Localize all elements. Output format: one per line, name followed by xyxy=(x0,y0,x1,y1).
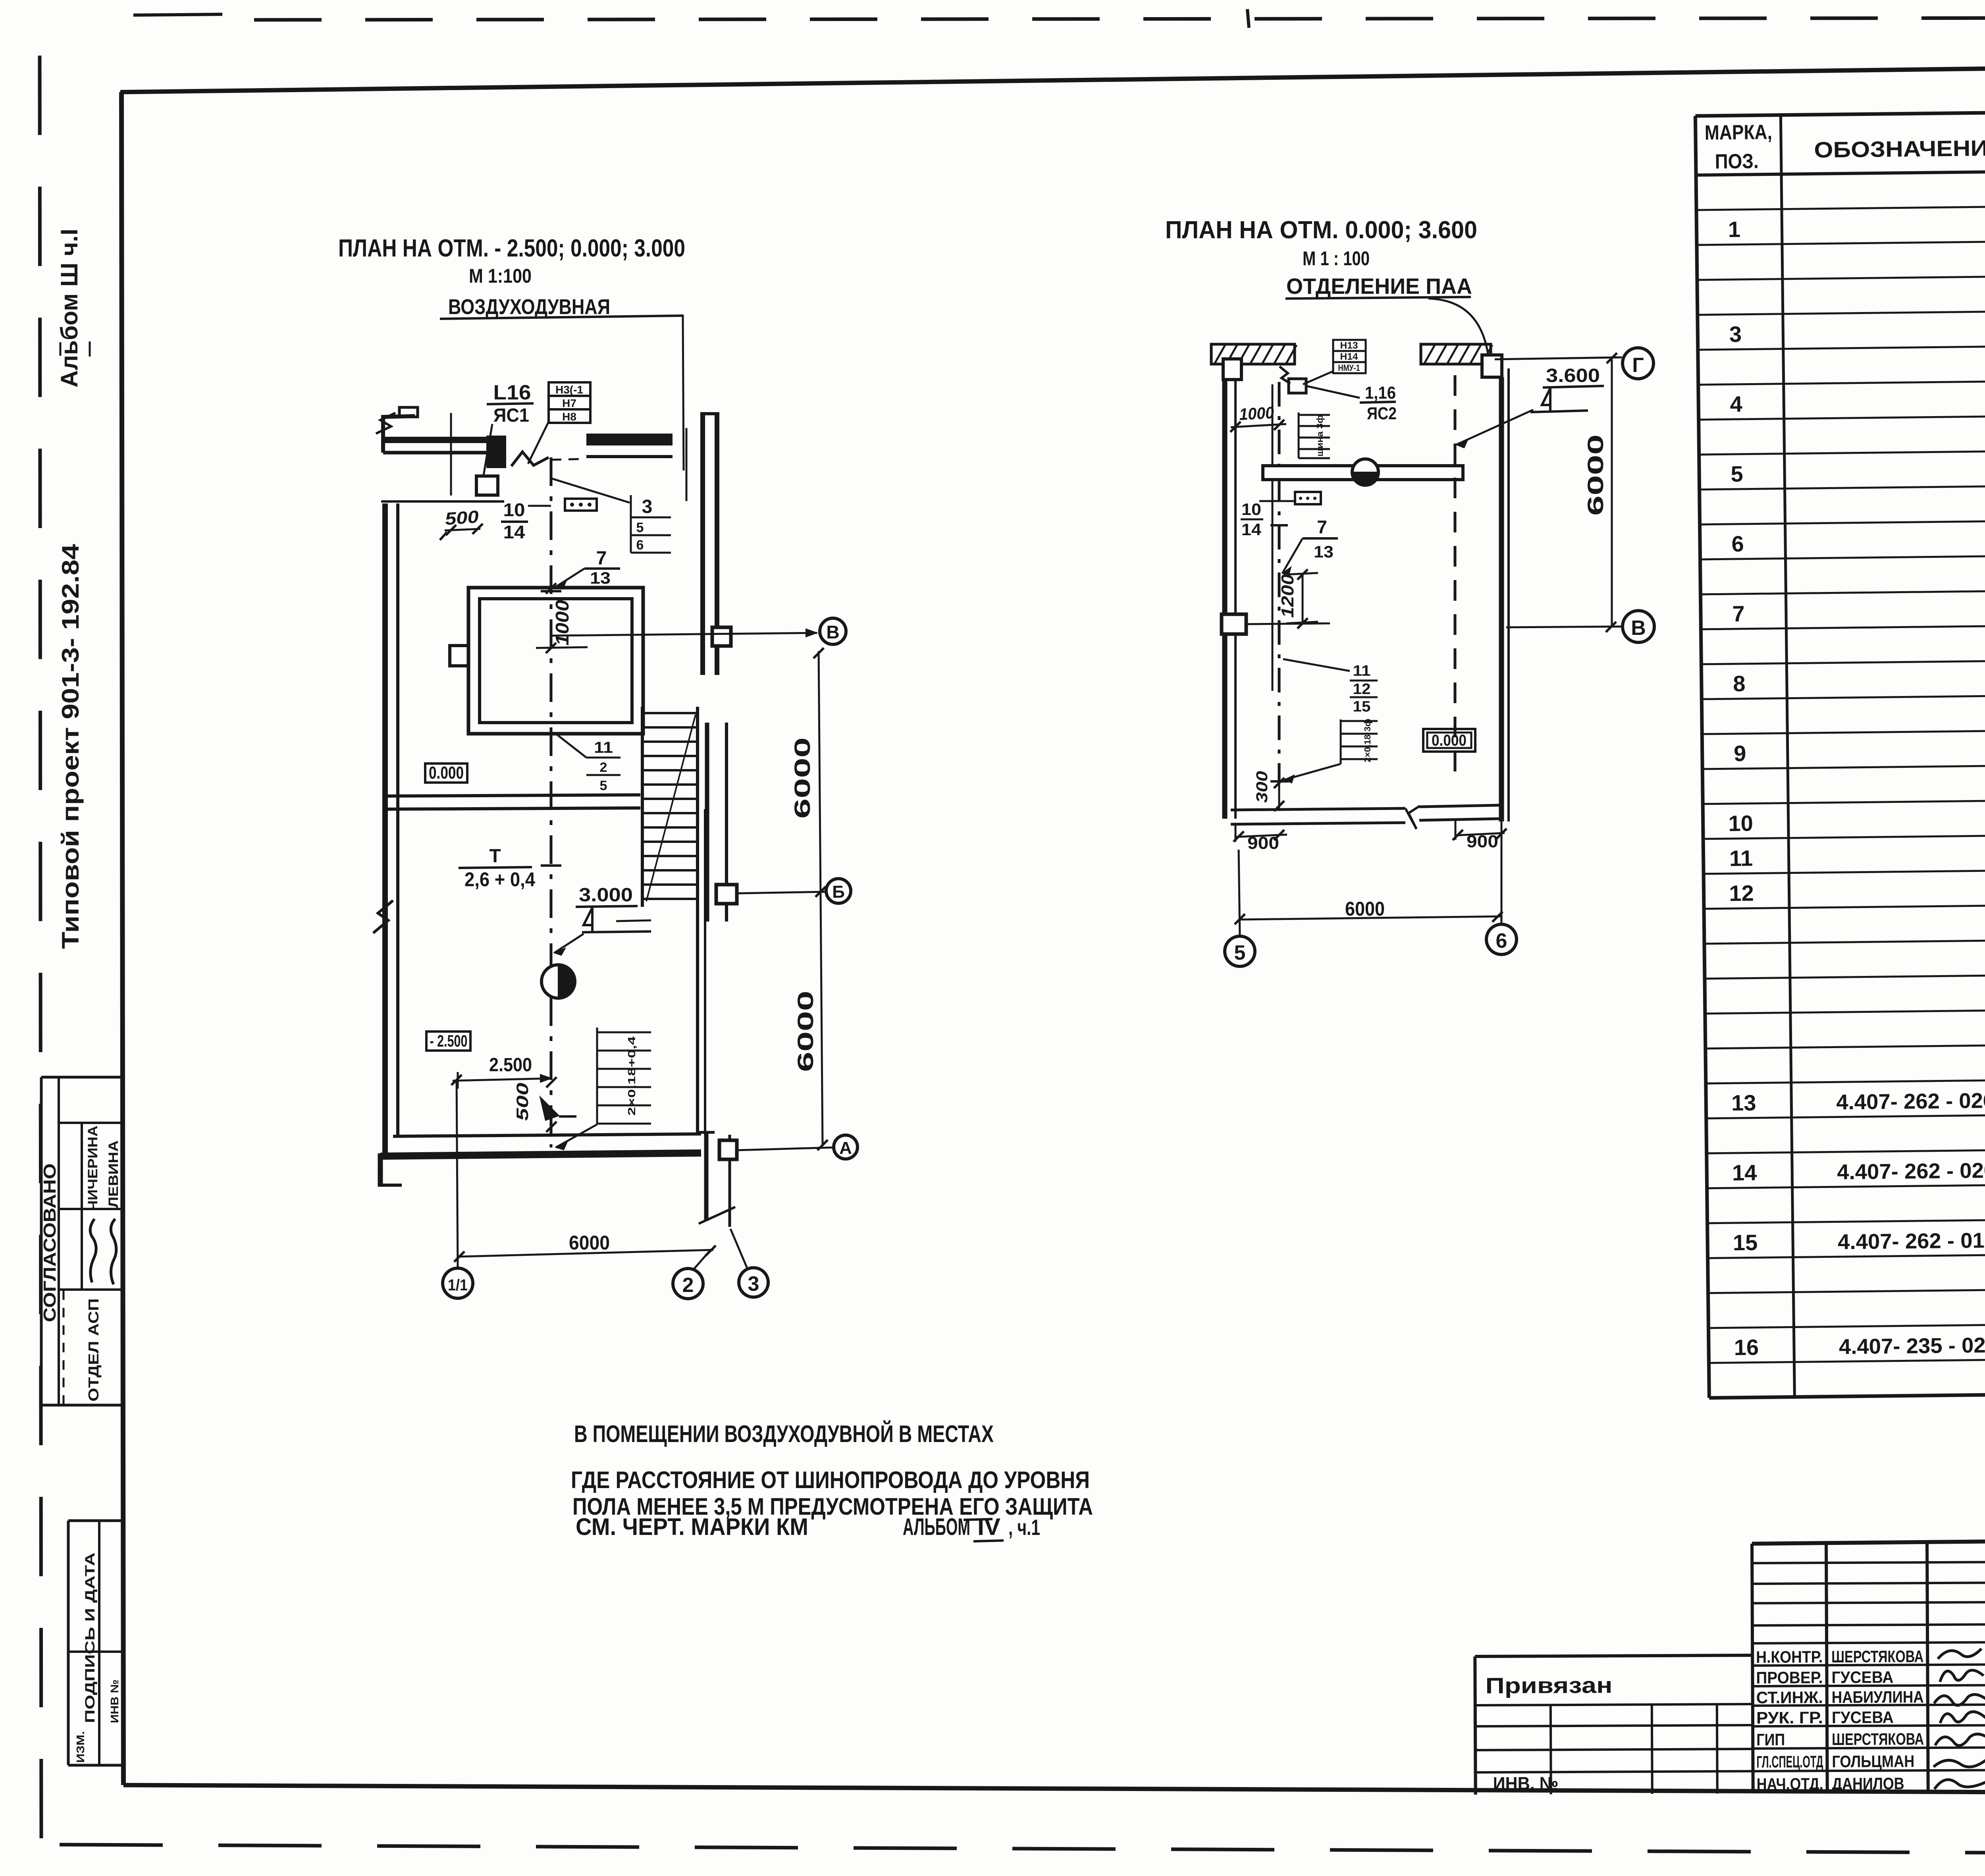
axis circle 6 xyxy=(1486,924,1517,954)
svg-text:12: 12 xyxy=(1353,681,1371,698)
svg-text:1200: 1200 xyxy=(1278,574,1297,618)
inner frame left xyxy=(121,92,123,1785)
wall top-right band xyxy=(586,434,673,445)
svg-text:ГУСЕВА: ГУСЕВА xyxy=(1832,1708,1894,1727)
axis circle A xyxy=(834,1135,858,1159)
lower ladder leader xyxy=(1284,764,1341,780)
svg-text:, ч.1: , ч.1 xyxy=(1008,1515,1040,1540)
outer dashed border left xyxy=(40,56,41,1846)
svg-text:3: 3 xyxy=(642,496,653,517)
corridor inner wall line xyxy=(381,500,504,503)
axis tick right of door xyxy=(686,428,688,501)
svg-text:ЯС1: ЯС1 xyxy=(493,405,529,426)
mid plan right wall xyxy=(1499,377,1504,821)
axis circle B xyxy=(826,879,851,903)
half circle symbol left plan xyxy=(542,965,575,998)
svg-text:Н14: Н14 xyxy=(1340,351,1359,362)
svg-text:6: 6 xyxy=(1496,929,1507,952)
svg-text:7: 7 xyxy=(596,548,607,569)
svg-text:0.000: 0.000 xyxy=(429,763,464,783)
three dot box xyxy=(565,499,597,511)
axis line A xyxy=(737,1147,834,1150)
svg-text:14: 14 xyxy=(503,522,525,542)
inner frame top xyxy=(120,62,1985,92)
svg-text:6: 6 xyxy=(1731,531,1744,556)
level mark leader xyxy=(554,934,584,953)
svg-text:3: 3 xyxy=(748,1273,759,1296)
axis circle 1-1 xyxy=(443,1268,473,1298)
interior wall xyxy=(387,795,640,796)
YaS2 leader xyxy=(1306,386,1360,398)
margin dash line xyxy=(63,1290,65,1406)
svg-text:10: 10 xyxy=(503,499,525,520)
svg-text:Н13: Н13 xyxy=(1340,340,1358,351)
svg-text:10: 10 xyxy=(1241,500,1261,519)
svg-text:11: 11 xyxy=(1729,846,1753,871)
svg-text:ПЛАН НА ОТМ. - 2.500; 0.000: ПЛАН НА ОТМ. - 2.500; 0.000; 3.000 xyxy=(338,235,685,262)
mid bottom break squiggle xyxy=(1405,806,1420,829)
title block outline top xyxy=(1752,1536,1985,1544)
svg-text:НАБИУЛИНА: НАБИУЛИНА xyxy=(1832,1687,1924,1706)
privyazan table xyxy=(1475,1655,1752,1656)
svg-text:М 1 : 100: М 1 : 100 xyxy=(1303,247,1370,270)
3.600 leader xyxy=(1456,410,1533,445)
svg-text:ПОДПИСЬ И ДАТА: ПОДПИСЬ И ДАТА xyxy=(83,1552,98,1723)
crane rail strip upper xyxy=(700,413,705,675)
svg-text:2,6 + 0,4: 2,6 + 0,4 xyxy=(464,868,535,891)
margin signature squiggle 2 xyxy=(111,1219,116,1284)
bottom wall inner face xyxy=(393,1134,701,1136)
svg-text:6: 6 xyxy=(636,538,644,553)
cable ladder bottom xyxy=(596,1028,598,1124)
busbar cross 1 xyxy=(1270,524,1288,526)
7-13 leader xyxy=(1282,538,1303,573)
svg-text:РУК. ГР.: РУК. ГР. xyxy=(1756,1708,1823,1727)
N boxes leader xyxy=(1303,371,1333,384)
mid axis 5 guide xyxy=(1239,850,1240,936)
mid trolley busbar dash-dot xyxy=(1278,382,1281,781)
monorail beam bar xyxy=(1263,466,1463,480)
svg-text:7: 7 xyxy=(1732,601,1745,626)
svg-text:Типовой проект 901-3- 192.8: Типовой проект 901-3- 192.84 xyxy=(57,544,84,949)
svg-text:Б: Б xyxy=(832,882,845,902)
axis 1-1 vertical lower xyxy=(457,1079,458,1269)
svg-text:2×0,18·3ф: 2×0,18·3ф xyxy=(1363,719,1372,762)
inner square room inner xyxy=(480,599,632,723)
trolley busbar dash-dot xyxy=(550,457,553,1147)
11-12-15 leader xyxy=(1283,659,1350,671)
svg-text:15: 15 xyxy=(1733,1230,1758,1255)
stack leader to busbar xyxy=(556,734,586,758)
svg-text:Т: Т xyxy=(489,846,501,867)
hatched wall top-right xyxy=(1421,344,1491,364)
title block xyxy=(1474,1536,1985,1795)
left outer wall xyxy=(382,503,388,1157)
svg-text:300: 300 xyxy=(1253,771,1271,803)
svg-text:14: 14 xyxy=(1732,1160,1757,1185)
level box 0.000 xyxy=(425,764,467,783)
svg-text:В ПОМЕЩЕНИИ ВОЗДУХОДУВНОЙ: В ПОМЕЩЕНИИ ВОЗДУХОДУВНОЙ В МЕСТАХ xyxy=(574,1421,994,1447)
svg-text:2: 2 xyxy=(682,1274,694,1297)
ladder mid lower xyxy=(1340,719,1342,764)
crane rail strip lower xyxy=(704,1132,709,1221)
inner square room outer xyxy=(468,588,643,734)
busbar bottom cross xyxy=(1270,780,1289,783)
svg-text:7: 7 xyxy=(1317,517,1327,537)
svg-text:5: 5 xyxy=(1234,941,1246,964)
column square top-left xyxy=(1223,359,1241,380)
mid bottom footing left xyxy=(1231,808,1405,810)
svg-text:ГДЕ РАССТОЯНИЕ ОТ ШИНОПРОВ: ГДЕ РАССТОЯНИЕ ОТ ШИНОПРОВОДА ДО УРОВНЯ xyxy=(571,1467,1090,1493)
svg-text:1/1: 1/1 xyxy=(448,1276,468,1294)
door pier filled xyxy=(488,437,505,467)
bottom dim 6000 xyxy=(459,1250,713,1257)
mid bottom footing right xyxy=(1419,805,1499,807)
svg-text:М 1:100: М 1:100 xyxy=(469,265,532,287)
svg-text:ИЗМ.: ИЗМ. xyxy=(74,1731,87,1763)
axis line V xyxy=(551,633,817,636)
svg-text:1,16: 1,16 xyxy=(1365,383,1396,403)
svg-text:11: 11 xyxy=(1353,663,1371,679)
axis line B xyxy=(737,892,826,893)
hatched wall top-left xyxy=(1211,344,1295,364)
svg-text:ИНВ №: ИНВ № xyxy=(108,1679,121,1723)
column square top-right at G xyxy=(1482,355,1502,377)
stair treads xyxy=(642,712,698,714)
wall top-left band xyxy=(383,437,504,443)
svg-text:15: 15 xyxy=(1353,698,1371,715)
svg-text:ГУСЕВА: ГУСЕВА xyxy=(1831,1668,1893,1687)
bottom wall left corner foot xyxy=(378,1153,383,1186)
axis G line xyxy=(1495,357,1622,359)
svg-text:4: 4 xyxy=(1730,391,1742,416)
specification table xyxy=(1695,107,1985,1398)
vertical dim line V-B-A xyxy=(819,651,823,1146)
table column lines xyxy=(1695,116,1709,1398)
box YaS1 xyxy=(476,476,498,495)
svg-text:6000: 6000 xyxy=(790,737,815,819)
svg-text:13: 13 xyxy=(1314,542,1334,561)
table bottom line xyxy=(1709,1389,1985,1398)
bottom wall outer face xyxy=(380,1153,701,1156)
svg-text:АЛЬБОМ: АЛЬБОМ xyxy=(903,1514,970,1540)
svg-text:Н8: Н8 xyxy=(562,411,576,423)
svg-text:1000: 1000 xyxy=(1239,403,1274,424)
svg-text:ГОЛЬЦМАН: ГОЛЬЦМАН xyxy=(1832,1752,1914,1771)
svg-text:1000: 1000 xyxy=(552,600,572,646)
svg-text:10: 10 xyxy=(1728,811,1753,836)
connector box axis V xyxy=(712,627,731,646)
svg-text:ГИП: ГИП xyxy=(1756,1730,1785,1749)
axis 1-1 tick at top wall xyxy=(450,413,452,496)
svg-text:ШЕРСТЯКОВА: ШЕРСТЯКОВА xyxy=(1831,1647,1923,1666)
axis circle 3 xyxy=(739,1268,768,1297)
staff signatures xyxy=(1938,1648,1981,1658)
table header lines xyxy=(1695,107,1985,116)
axis V line mid left xyxy=(1246,623,1330,624)
svg-text:4.407- 262 - 020: 4.407- 262 - 020 xyxy=(1837,1159,1985,1184)
svg-text:IV: IV xyxy=(977,1514,1000,1540)
svg-text:3: 3 xyxy=(1729,322,1742,347)
left wall break squiggle xyxy=(373,900,393,933)
svg-text:13: 13 xyxy=(590,569,611,587)
svg-text:4.407- 262 - 026: 4.407- 262 - 026 xyxy=(1836,1089,1985,1114)
svg-text:8: 8 xyxy=(1733,671,1746,696)
svg-text:14: 14 xyxy=(1241,520,1262,539)
svg-text:13: 13 xyxy=(1731,1090,1756,1116)
connector box axis B xyxy=(716,885,737,904)
svg-text:ВОЗДУХОДУВНАЯ: ВОЗДУХОДУВНАЯ xyxy=(448,295,610,319)
end feed arrow xyxy=(540,1097,559,1120)
svg-text:2: 2 xyxy=(600,760,607,775)
svg-text:МАРКА,: МАРКА, xyxy=(1705,121,1773,145)
scan mark top center xyxy=(1247,9,1249,28)
svg-text:Альбом Ш ч.I: Альбом Ш ч.I xyxy=(56,229,83,388)
door leaf squiggle xyxy=(511,452,549,466)
svg-text:4.407- 262 - 017: 4.407- 262 - 017 xyxy=(1838,1228,1985,1254)
bottom dim 6000 mid xyxy=(1240,916,1501,920)
svg-text:Г: Г xyxy=(1632,354,1644,377)
mid plan left wall xyxy=(1222,380,1228,819)
H boxes leader xyxy=(528,422,549,464)
busbar cross ticks xyxy=(541,590,561,592)
svg-text:500: 500 xyxy=(444,507,480,529)
ladder leader xyxy=(556,1124,597,1147)
connector square axis V mid xyxy=(1222,614,1246,634)
axis circle G xyxy=(1623,348,1654,379)
svg-text:2×0,18+0,4: 2×0,18+0,4 xyxy=(626,1036,638,1116)
leader right strip to circle 2 xyxy=(694,1250,711,1269)
svg-text:ОТДЕЛ АСП: ОТДЕЛ АСП xyxy=(85,1298,102,1402)
svg-text:9: 9 xyxy=(1734,741,1746,766)
svg-text:Н3(-1: Н3(-1 xyxy=(555,384,583,396)
svg-text:СМ. ЧЕРТ. МАРКИ КМ: СМ. ЧЕРТ. МАРКИ КМ xyxy=(576,1514,808,1540)
margin stamp soglasovano table xyxy=(41,1076,123,1079)
svg-text:НМУ-1: НМУ-1 xyxy=(1338,363,1360,373)
svg-text:Н7: Н7 xyxy=(562,397,576,409)
margin stamp podpis table xyxy=(68,1519,123,1522)
svg-text:ОТДЕЛЕНИЕ ПАА: ОТДЕЛЕНИЕ ПАА xyxy=(1286,274,1472,299)
leader to circle 3 xyxy=(730,1229,747,1268)
mid axis 6 guide xyxy=(1501,840,1503,924)
svg-text:ДАНИЛОВ: ДАНИЛОВ xyxy=(1832,1774,1904,1793)
inner frame bottom xyxy=(123,1785,1985,1794)
half circle symbol mid plan xyxy=(1352,459,1378,485)
svg-text:В: В xyxy=(1631,617,1646,640)
svg-text:ШЕРСТЯКОВА: ШЕРСТЯКОВА xyxy=(1832,1729,1924,1749)
PAA underline and leader xyxy=(1285,297,1471,299)
svg-text:16: 16 xyxy=(1734,1334,1759,1360)
svg-text:11: 11 xyxy=(594,739,613,756)
svg-text:5: 5 xyxy=(1731,461,1743,486)
svg-text:6000: 6000 xyxy=(793,991,818,1072)
svg-text:ОБОЗНАЧЕНИЕ: ОБОЗНАЧЕНИЕ xyxy=(1814,135,1985,162)
stair diagonal xyxy=(646,715,696,901)
svg-text:ЯС2: ЯС2 xyxy=(1367,404,1397,423)
svg-text:L16: L16 xyxy=(493,381,531,404)
svg-text:НАЧ.ОТД.: НАЧ.ОТД. xyxy=(1757,1774,1823,1793)
labels H3 H7 H8 boxes xyxy=(549,382,590,396)
level box 0.000 mid xyxy=(1423,729,1475,752)
connector box axis A xyxy=(719,1140,737,1159)
svg-text:А: А xyxy=(839,1138,852,1158)
wall top-left break jog xyxy=(383,416,415,453)
svg-text:5: 5 xyxy=(636,520,644,535)
leader to stack xyxy=(551,478,630,503)
title block staff verticals xyxy=(1752,1544,1753,1793)
svg-text:5: 5 xyxy=(600,778,607,793)
svg-text:ПРОВЕР.: ПРОВЕР. xyxy=(1756,1668,1823,1687)
svg-text:ГЛ.СПЕЦ.ОТД: ГЛ.СПЕЦ.ОТД xyxy=(1756,1752,1823,1771)
three dot box mid xyxy=(1295,492,1321,504)
svg-text:6000: 6000 xyxy=(569,1232,610,1254)
table row lines xyxy=(1696,201,1985,210)
scan mark top left xyxy=(133,14,222,15)
svg-text:12: 12 xyxy=(1729,881,1754,906)
svg-text:ПЛАН НА ОТМ. 0.000; 3.600: ПЛАН НА ОТМ. 0.000; 3.600 xyxy=(1165,216,1477,244)
svg-text:Н.КОНТР.: Н.КОНТР. xyxy=(1756,1647,1823,1666)
svg-text:ЛЕВИНА: ЛЕВИНА xyxy=(106,1140,121,1208)
axis circle V xyxy=(820,618,846,644)
svg-text:6000: 6000 xyxy=(1583,434,1608,516)
vertical dim G-V xyxy=(1611,359,1613,627)
svg-text:- 2.500: - 2.500 xyxy=(430,1032,468,1050)
svg-text:ЧИЧЕРИНА: ЧИЧЕРИНА xyxy=(85,1126,100,1211)
room label underline with leader xyxy=(440,316,684,319)
svg-text:3.600: 3.600 xyxy=(1546,365,1600,386)
axis V line mid right xyxy=(1506,627,1622,627)
svg-text:ПОЗ.: ПОЗ. xyxy=(1715,150,1759,173)
axis circle 5 xyxy=(1225,936,1255,966)
svg-text:СОГЛАСОВАНО: СОГЛАСОВАНО xyxy=(40,1163,60,1322)
room bottom-right wall xyxy=(696,809,699,1135)
outer dashed border bottom xyxy=(60,1845,1985,1855)
svg-text:1: 1 xyxy=(1728,217,1741,242)
mid busbar solid rail xyxy=(1272,384,1274,691)
crane rail strip middle xyxy=(705,723,709,922)
dashed busbar 3.600 level xyxy=(1454,375,1457,778)
svg-text:В: В xyxy=(826,622,839,642)
box YaS2 xyxy=(1289,379,1306,393)
svg-text:500: 500 xyxy=(513,1083,532,1121)
svg-text:4.407- 235 - 020: 4.407- 235 - 020 xyxy=(1839,1333,1985,1359)
svg-text:6000: 6000 xyxy=(1345,898,1385,920)
svg-text:Привязан: Привязан xyxy=(1485,1673,1612,1698)
title block staff rows xyxy=(1752,1562,1985,1563)
room left protrusion xyxy=(450,646,468,666)
outer dashed border top xyxy=(254,17,1985,20)
svg-text:ИНВ. №: ИНВ. № xyxy=(1493,1773,1559,1794)
ladder mid upper xyxy=(1298,413,1300,458)
axis circle 2 xyxy=(673,1269,703,1299)
margin signature squiggle 1 xyxy=(90,1219,96,1282)
svg-text:2.500: 2.500 xyxy=(489,1055,532,1076)
level box -2.500 xyxy=(426,1032,470,1051)
svg-text:шина 3ф: шина 3ф xyxy=(1315,415,1325,457)
svg-text:0.000: 0.000 xyxy=(1432,732,1467,749)
stairs rails xyxy=(641,707,644,907)
strip break slash xyxy=(699,1207,735,1224)
svg-text:СТ.ИНЖ.: СТ.ИНЖ. xyxy=(1756,1688,1823,1707)
svg-text:3.000: 3.000 xyxy=(579,885,633,906)
axis circle V mid xyxy=(1623,611,1654,642)
labels N13 N14 NMU boxes xyxy=(1333,340,1366,351)
busbar zigzag at wall xyxy=(1280,366,1290,384)
